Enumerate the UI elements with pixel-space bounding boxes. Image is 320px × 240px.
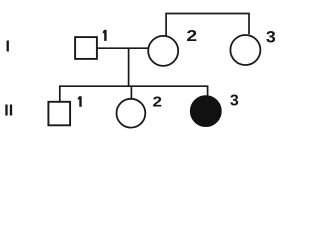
individual I-2 (circle, female) (148, 36, 178, 66)
svg-text:2: 2 (186, 27, 197, 45)
svg-text:I: I (6, 39, 10, 56)
wire: gen II sibling line with drops to II-1 and II-3 (60, 86, 208, 101)
wire: gen I sibling bracket (I-2 to I-3) (166, 14, 249, 37)
svg-text:3: 3 (266, 27, 276, 46)
individual I-1 (square, male) (75, 37, 97, 59)
svg-text:II: II (4, 103, 13, 120)
svg-text:3: 3 (230, 93, 239, 110)
wire: marriage line I-1 to I-2 (98, 47, 149, 49)
label 3 (I-3) (266, 27, 276, 46)
svg-text:2: 2 (153, 93, 163, 110)
label 1 (I-1) (103, 30, 107, 41)
label 2 (I-2) (186, 27, 197, 45)
label 2 (II-2) (153, 93, 163, 110)
individual II-3 (filled circle, affected female) (190, 96, 221, 127)
wire: drop to II-2 (130, 86, 132, 98)
label 1 (II-1) (78, 96, 82, 106)
individual I-3 (circle, female) (230, 35, 260, 65)
individual II-1 (square, male) (48, 102, 70, 126)
wire: descent from marriage to gen II sibling line (128, 48, 130, 86)
individual II-2 (circle, female) (116, 99, 145, 128)
